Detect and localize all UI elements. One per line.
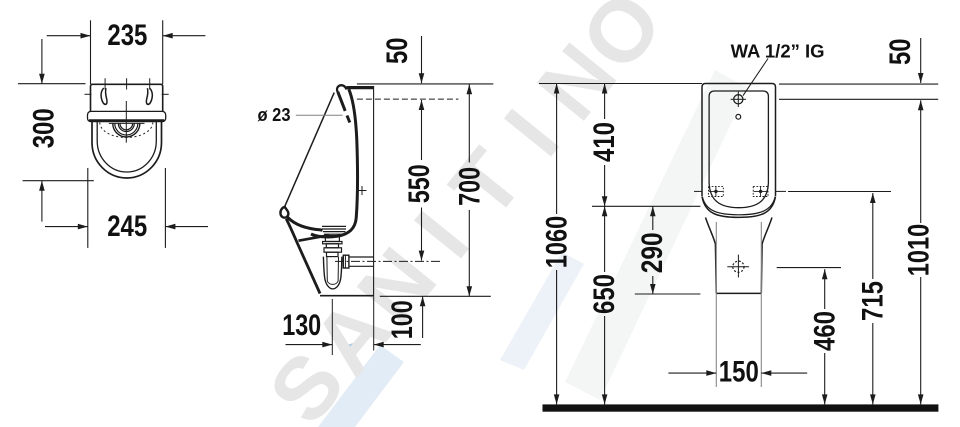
arrowhead 100 up <box>420 296 426 306</box>
side outlet pipe top <box>349 256 374 258</box>
side inlet dashed centerline <box>357 98 459 100</box>
front drain arc 2 <box>115 124 138 136</box>
dim line 410 upper <box>604 84 606 120</box>
rear bottom line <box>716 292 761 294</box>
front drain horizontal centerline <box>109 122 145 124</box>
dim line 245 right segment <box>165 226 208 228</box>
arrowhead 300 top <box>39 74 45 84</box>
arrowhead 550 up <box>419 100 425 110</box>
arrowhead 1010 down <box>918 394 924 404</box>
dim line 290 lower <box>652 276 654 294</box>
dim line 715 lower <box>872 323 874 404</box>
side outlet pipe bottom <box>349 265 374 267</box>
side front slant line <box>285 93 335 207</box>
arrowhead 410 down <box>602 196 608 206</box>
side drain washer 1 <box>323 242 342 244</box>
watermark pale band upper right <box>500 252 584 370</box>
ext line 235 right <box>162 20 164 84</box>
arrowhead 300 bottom <box>39 181 45 191</box>
front drain arc 1 <box>113 124 140 138</box>
arrowhead 1060 up <box>554 84 560 94</box>
side fixing cross <box>358 190 367 192</box>
dim line 550 upper segment <box>421 100 423 160</box>
dim line 290 upper <box>652 206 654 230</box>
rear rim mid arc <box>702 197 775 215</box>
rear shroud right edge <box>761 218 772 294</box>
dim line 550 lower segment <box>421 208 423 261</box>
dim line 100 <box>422 296 424 338</box>
rear mounting tick right <box>776 190 786 192</box>
dim line 1060 lower <box>556 270 558 404</box>
rear outlet circle dashed <box>733 261 744 272</box>
rear small hole <box>736 114 741 119</box>
ext line 150 left <box>715 222 717 387</box>
side trap inner bottom <box>327 281 338 284</box>
arrowhead 650 down <box>602 394 608 404</box>
dim line 130 left segment <box>286 344 333 346</box>
side drain stem upper <box>325 236 339 242</box>
svg-text:WA 1/2” IG: WA 1/2” IG <box>731 42 825 62</box>
rear mounting hole left <box>709 186 724 196</box>
front tank outline <box>91 84 163 111</box>
ref line 300 bottom <box>23 180 94 182</box>
arrow line 300 bottom <box>41 181 43 222</box>
ref line 300 top <box>18 83 86 85</box>
svg-text:130: 130 <box>282 309 321 342</box>
ext line holes level right <box>788 191 891 193</box>
arrowhead 290 down <box>650 284 656 294</box>
side spout inner wall lower <box>347 116 350 123</box>
arrowhead 1060 down <box>554 394 560 404</box>
rear shroud left edge <box>706 218 717 294</box>
rear inlet crosshair <box>731 98 746 100</box>
ext line 245 left <box>87 168 89 248</box>
svg-text:ø 23: ø 23 <box>258 105 291 125</box>
side trap inner left <box>326 257 328 281</box>
rear rim outer arc <box>702 197 776 218</box>
side shroud ledge <box>299 235 330 241</box>
side trap inner right <box>337 257 339 281</box>
arrowhead 50 middle down <box>419 73 425 83</box>
front tank top center tick <box>126 78 128 89</box>
front keyhole right <box>146 88 152 104</box>
side trap bottle <box>323 257 342 289</box>
watermark pale diagonal band far right <box>565 70 748 400</box>
dim line 460 upper <box>824 269 826 309</box>
side wall line <box>373 86 375 296</box>
dim line 650 upper <box>604 206 606 272</box>
svg-text:290: 290 <box>636 232 669 273</box>
dim line 150 left segment <box>668 372 716 374</box>
front bowl inner <box>97 122 156 172</box>
dim line 1010 upper <box>920 100 922 223</box>
side drain stack line 2 <box>322 228 346 230</box>
dim line 410 lower <box>604 165 606 206</box>
arrowhead 460 down <box>822 394 828 404</box>
side drain stack line 4 <box>324 233 345 235</box>
front bowl outer <box>92 122 162 178</box>
front drain dashed arc <box>100 123 153 138</box>
side drain CL extension below <box>331 299 333 355</box>
side bottom line <box>320 295 374 297</box>
svg-text:50: 50 <box>884 38 917 64</box>
ext line outlet level right <box>777 267 841 269</box>
watermark blue band near letter A <box>318 345 404 427</box>
dim line 1060 upper <box>556 84 558 215</box>
arrowhead 715 down <box>870 394 876 404</box>
dim line 700 upper segment <box>468 84 470 162</box>
ext line top right 1 <box>779 83 938 85</box>
arrowhead 650 up <box>602 206 608 216</box>
rear inlet circle <box>734 95 743 104</box>
watermark group <box>249 0 748 427</box>
arrowhead 700 down <box>467 286 473 296</box>
svg-text:150: 150 <box>719 356 759 389</box>
front side tick right <box>162 93 169 95</box>
svg-text:410: 410 <box>588 122 621 162</box>
dim line 50 middle <box>421 36 423 83</box>
svg-text:50: 50 <box>381 37 414 64</box>
dim line 130 right segment <box>374 344 421 346</box>
svg-text:1010: 1010 <box>902 224 935 277</box>
rear outlet crosshair <box>727 266 749 268</box>
svg-text:100: 100 <box>386 300 419 339</box>
arrowhead 1010 up <box>918 100 924 110</box>
arrowhead 235 right <box>163 33 173 39</box>
svg-text:300: 300 <box>28 108 61 148</box>
front rim band <box>88 111 166 121</box>
arrowhead 550 down <box>419 251 425 261</box>
ext line inlet level right <box>779 98 938 100</box>
front drain arc 3 <box>118 124 134 132</box>
side bowl underside <box>288 217 323 230</box>
arrowhead 410 up <box>602 84 608 94</box>
rear mounting tick left <box>694 190 702 192</box>
arrow line 300 top <box>41 39 43 84</box>
svg-text:235: 235 <box>107 19 147 52</box>
dim line 150 right segment <box>761 372 807 374</box>
side drain stem mid <box>326 244 338 248</box>
front rim band thick bottom <box>89 119 164 122</box>
ext line 290 bottom <box>635 293 701 295</box>
ext line rim level left <box>592 205 700 207</box>
rear mounting hole right <box>753 186 768 196</box>
svg-text:650: 650 <box>588 274 621 314</box>
side outlet flange <box>343 255 349 268</box>
dim line 460 lower <box>824 353 826 404</box>
dim line 235 left segment <box>47 35 91 37</box>
side wall extension below <box>373 296 375 350</box>
svg-text:460: 460 <box>809 311 842 351</box>
side top thick surface <box>347 86 374 89</box>
ext line 150 right <box>760 222 762 387</box>
ext line 245 right <box>164 168 166 248</box>
side drain stack line 1 <box>322 225 346 227</box>
side drain stack line 3 <box>323 231 346 233</box>
side spout inner wall upper <box>338 92 345 111</box>
side top ext line <box>357 83 493 85</box>
front side tick left <box>85 93 92 95</box>
side drain neck <box>327 252 339 256</box>
svg-text:550: 550 <box>403 164 436 203</box>
dim line 245 left segment <box>45 226 88 228</box>
dim line 700 lower segment <box>468 210 470 296</box>
arrowhead 290 up <box>650 206 656 216</box>
side drain washer 2 <box>324 248 342 252</box>
arrowhead 460 up <box>822 269 828 279</box>
dim line 50 right <box>920 38 922 83</box>
front drain vertical centerline <box>125 101 127 143</box>
svg-text:245: 245 <box>107 210 147 243</box>
ext line top left <box>539 83 702 85</box>
rear WA leader line <box>743 59 768 96</box>
front drain arc 4 <box>120 124 133 130</box>
side outlet dash-dot centerline <box>335 260 442 262</box>
front keyhole left <box>101 88 107 104</box>
dim line 650 lower <box>604 316 606 404</box>
rear inner rounded rect with U bottom <box>709 91 768 208</box>
side leader line diameter 23 <box>296 114 343 116</box>
floor bar <box>543 404 939 411</box>
svg-text:700: 700 <box>454 167 487 206</box>
arrowhead 245 right <box>165 224 175 230</box>
svg-text:715: 715 <box>856 281 889 321</box>
rear outer body <box>702 84 776 197</box>
side front lip loop <box>280 207 288 218</box>
dim line 1010 lower <box>920 277 922 404</box>
front tank top tick right <box>149 78 151 89</box>
svg-text:1060: 1060 <box>540 216 573 269</box>
side bottom ext line right <box>380 295 491 297</box>
arrowhead 50 right down <box>918 73 924 83</box>
watermark bright blue triangle <box>343 342 357 361</box>
arrowhead 130 left <box>322 342 332 348</box>
ext line 235 left <box>90 20 92 84</box>
side shroud front <box>286 219 320 294</box>
front tank top tick left <box>104 78 106 89</box>
arrowhead 715 up <box>870 193 876 203</box>
dim line 715 upper <box>872 193 874 279</box>
arrowhead 150 left <box>706 370 716 376</box>
arrowhead 150 right <box>761 370 771 376</box>
side back wall and bowl interior <box>311 89 357 237</box>
dim line 235 right segment <box>163 35 206 37</box>
arrowhead 235 left <box>81 33 91 39</box>
side spout hump <box>337 85 346 92</box>
arrowhead 245 left <box>78 224 88 230</box>
arrowhead 130 right <box>374 342 384 348</box>
arrowhead 700 up <box>467 84 473 94</box>
